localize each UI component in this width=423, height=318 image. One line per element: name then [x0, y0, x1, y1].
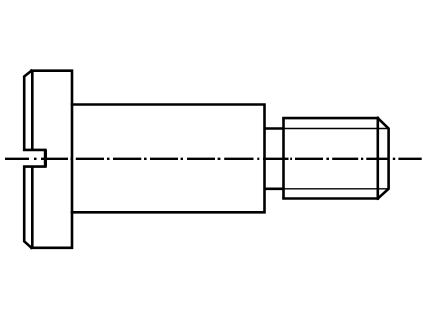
head outline: outer chamfered profile with slot notch — [24, 71, 45, 248]
thread major diameter bottom — [284, 197, 378, 200]
end chamfer and tip face — [378, 118, 389, 198]
thread end vertical (chamfer start) — [376, 118, 379, 198]
shoulder cylinder — [72, 105, 265, 213]
thread major diameter top — [284, 117, 378, 120]
head top, right side and bottom — [32, 71, 73, 248]
undercut neck top — [265, 127, 284, 130]
slot bottom (depth) vertical — [44, 150, 47, 167]
thread start vertical — [282, 118, 285, 198]
centerline (dash-dot axis) — [5, 158, 422, 160]
undercut neck bottom — [265, 188, 284, 191]
head face line (inner vertical, interrupted by slot) — [31, 71, 34, 248]
thread root line bottom (thin) — [284, 188, 389, 190]
thread root line top (thin) — [284, 128, 389, 130]
